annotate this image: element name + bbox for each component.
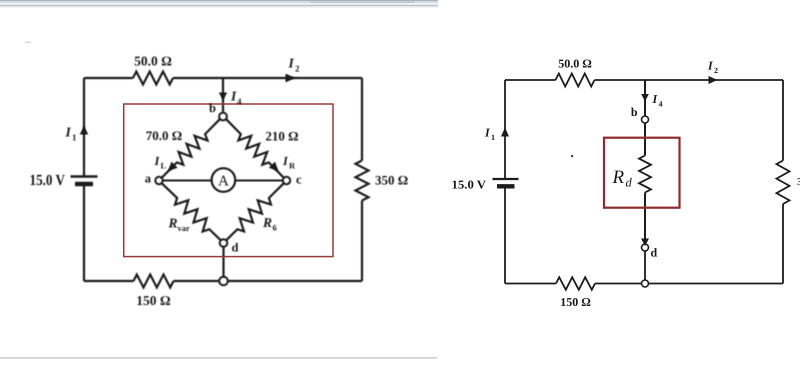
resistor 350 ohm (left) — [356, 161, 369, 201]
resistor 50.0 ohm (left) — [133, 72, 173, 85]
battery plate long (right) — [493, 178, 519, 180]
svg-text:4: 4 — [237, 97, 242, 107]
svg-text:a: a — [145, 172, 152, 186]
wire top left — [84, 77, 133, 79]
svg-text:d: d — [232, 241, 239, 255]
svg-text:d: d — [651, 246, 658, 260]
wire Rd to node d — [644, 193, 646, 244]
window top bar — [0, 0, 438, 8]
svg-text:50.0 Ω: 50.0 Ω — [134, 54, 172, 69]
svg-text:I: I — [65, 125, 72, 140]
wire bottom left — [505, 283, 556, 285]
svg-text:50.0 Ω: 50.0 Ω — [558, 57, 592, 71]
node a — [155, 177, 162, 184]
bridge branch b-c with resistor 210 ohm — [226, 119, 284, 178]
svg-text:15.0 V: 15.0 V — [452, 178, 487, 192]
svg-text:15.0 V: 15.0 V — [30, 172, 66, 189]
resistor 350 ohm (right, cut) — [777, 161, 790, 205]
svg-text:210 Ω: 210 Ω — [265, 128, 298, 143]
ammeter U1 circle — [212, 168, 236, 192]
wire right lower — [361, 201, 363, 282]
node b — [219, 113, 227, 121]
wire right lower — [782, 204, 784, 284]
node c — [283, 177, 290, 184]
resistor 150 ohm (left) — [134, 275, 174, 288]
resistor 50.0 ohm (right) — [556, 74, 595, 87]
wire right upper — [361, 78, 363, 161]
svg-text:d: d — [626, 176, 633, 190]
svg-text:70.0 Ω: 70.0 Ω — [146, 128, 182, 143]
wire top left — [505, 79, 556, 81]
wire left side — [83, 78, 85, 176]
red highlight box (left bridge) — [124, 104, 333, 257]
svg-text:150 Ω: 150 Ω — [136, 293, 171, 308]
arrow into node d (right) — [641, 239, 649, 247]
wire bottom far left — [84, 280, 134, 282]
resistor 150 ohm (right) — [556, 277, 595, 290]
svg-text:350 Ω: 350 Ω — [375, 173, 408, 188]
svg-text:b: b — [631, 105, 638, 119]
wire right upper — [782, 80, 784, 161]
arrow I4 down — [219, 93, 227, 101]
wire bottom right — [228, 280, 362, 282]
stray dot — [571, 155, 573, 157]
bridge branch b-a with resistor 70.0 ohm — [162, 119, 220, 178]
wire drop to node b — [222, 78, 224, 112]
node bottom junction (right) — [642, 280, 649, 287]
svg-text:4: 4 — [659, 100, 663, 109]
svg-text:R: R — [168, 216, 178, 231]
arrow IL down-left — [168, 162, 178, 172]
svg-text:2: 2 — [714, 66, 718, 75]
svg-text:R: R — [262, 215, 272, 230]
wire ammeter to c — [236, 180, 283, 182]
wire top right — [595, 79, 784, 81]
wire bottom left — [174, 280, 220, 282]
wire bottom right — [649, 283, 784, 285]
svg-text:2: 2 — [295, 64, 300, 74]
wire left side upper — [504, 80, 506, 179]
svg-text:var: var — [178, 223, 191, 233]
red highlight box (right Rd) — [604, 138, 680, 208]
svg-text:L: L — [161, 161, 167, 171]
arrow I4 down (right) — [641, 94, 649, 102]
battery plate short (left) — [75, 182, 93, 187]
arrow I2 right (right) — [709, 76, 718, 84]
wire left side lower — [504, 187, 506, 284]
arrow I1 up (right) — [501, 128, 509, 137]
svg-text:R: R — [612, 167, 625, 188]
wire node d to bottom junction (right) — [644, 251, 646, 283]
wire drop to node b (right) — [644, 80, 646, 116]
wire left lower — [83, 185, 85, 282]
faint smudge top-left — [25, 42, 31, 44]
bridge branch d-c with resistor R6 — [226, 183, 283, 240]
wire top right — [173, 77, 362, 79]
battery plate short (right) — [497, 184, 515, 188]
node bottom junction — [219, 277, 228, 286]
node b (right) — [642, 116, 649, 123]
svg-text:b: b — [209, 101, 216, 115]
arrow I2 right — [286, 74, 296, 83]
svg-text:150 Ω: 150 Ω — [560, 295, 591, 309]
node d (right) — [642, 244, 649, 251]
bridge branch a-d with resistor Rvar — [162, 183, 221, 240]
wire node d to bottom junction — [222, 247, 224, 277]
arrow IR down-right — [269, 162, 279, 172]
battery plate long (left) — [71, 175, 98, 178]
svg-text:c: c — [296, 173, 302, 187]
svg-text:1: 1 — [72, 133, 77, 143]
svg-text:I: I — [230, 89, 237, 104]
svg-text:R: R — [289, 161, 296, 171]
node d — [220, 239, 228, 247]
svg-text:I: I — [288, 56, 295, 71]
arrow I1 up — [80, 126, 88, 135]
bottom separator line — [0, 357, 437, 358]
resistor Rd — [639, 156, 651, 193]
wire b to resistor Rd — [644, 123, 646, 155]
wire bottom mid — [595, 283, 642, 285]
svg-text:6: 6 — [273, 223, 277, 233]
svg-text:A: A — [218, 174, 229, 190]
svg-text:1: 1 — [491, 133, 495, 142]
wire a to ammeter — [163, 180, 211, 182]
